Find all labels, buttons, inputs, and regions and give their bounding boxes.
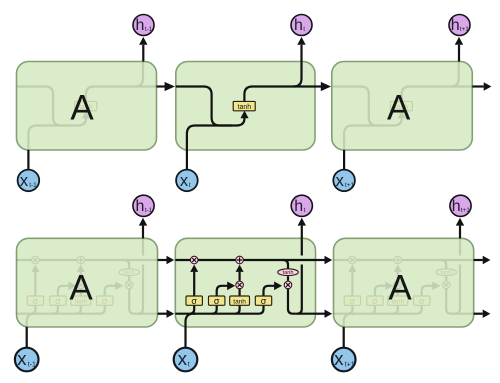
svg-text:A: A <box>69 269 93 308</box>
svg-text:A: A <box>388 269 412 308</box>
svg-text:t+1: t+1 <box>345 182 355 189</box>
wire C arrow B2 to B3 <box>316 256 333 264</box>
wire x input stub A3 <box>343 150 345 170</box>
svg-text:A: A <box>387 89 411 128</box>
svg-text:t-1: t-1 <box>145 26 153 33</box>
faded LSTM internals in box B1 <box>17 238 157 347</box>
wire x input stub A1 <box>27 150 29 170</box>
svg-text:t+1: t+1 <box>460 26 470 33</box>
wire C arrow B3 out <box>474 256 491 264</box>
wire h output arrow B2 <box>298 218 306 239</box>
node h(t+1) bottom <box>450 195 471 216</box>
svg-text:h: h <box>136 17 145 34</box>
svg-text:x: x <box>20 172 29 190</box>
module box A3 top-right <box>332 62 473 151</box>
module box B3 bottom-right <box>334 238 474 327</box>
svg-text:h: h <box>452 198 461 215</box>
faded LSTM internals in box B3 <box>334 238 474 347</box>
svg-text:x: x <box>17 348 27 369</box>
wire h arrow B2 to B3 <box>316 310 333 318</box>
wire h output arrow A2 <box>297 37 305 62</box>
svg-text:h: h <box>451 17 460 34</box>
wire h output arrow A1 <box>139 37 147 62</box>
wire x input stub A2 <box>186 150 188 170</box>
node x(t+1) top <box>333 170 355 192</box>
module box A2 top-middle <box>176 62 315 151</box>
wire x input stub B1 <box>26 327 28 348</box>
wire h output arrow A3 <box>455 37 463 62</box>
svg-text:h: h <box>136 198 145 215</box>
node x(t+1) bottom <box>332 348 356 372</box>
module box A1 top-left <box>17 62 157 151</box>
svg-text:t: t <box>188 362 190 369</box>
svg-text:t+1: t+1 <box>345 362 355 369</box>
svg-text:t-1: t-1 <box>145 207 153 214</box>
svg-text:x: x <box>336 172 345 190</box>
svg-text:h: h <box>294 17 303 34</box>
wire h arrow B3 out <box>474 310 491 318</box>
svg-text:t-1: t-1 <box>28 362 36 369</box>
svg-text:x: x <box>334 348 344 369</box>
wire arrow A3 out <box>472 82 491 90</box>
node x(t) top <box>176 170 198 192</box>
module box B2 bottom-middle <box>175 238 315 327</box>
wire arrow A1 to A2 <box>157 82 175 91</box>
svg-text:t: t <box>189 182 191 189</box>
svg-text:t-1: t-1 <box>29 182 37 189</box>
wire h arrow B1 to B2 <box>158 310 175 318</box>
faded RNN internals in box A1 <box>17 62 156 152</box>
wire h output arrow B3 <box>456 218 464 239</box>
faded RNN internals in box A3 <box>333 62 472 152</box>
wire C arrow B1 to B2 <box>158 256 175 264</box>
node x(t-1) bottom <box>15 348 39 372</box>
svg-text:x: x <box>180 172 189 190</box>
wire arrow A2 to A3 <box>315 82 331 91</box>
svg-text:A: A <box>70 89 94 128</box>
module box B1 bottom-left <box>17 238 158 327</box>
node h(t) bottom <box>291 195 312 216</box>
svg-text:t: t <box>303 26 305 33</box>
node h(t) top <box>291 15 312 36</box>
wire h output arrow B1 <box>139 218 147 239</box>
node x(t-1) top <box>18 170 40 192</box>
LSTM internals in box B2 <box>175 238 315 347</box>
wire x input stub B3 <box>343 327 345 348</box>
node h(t+1) top <box>449 15 470 36</box>
svg-text:t+1: t+1 <box>461 207 471 214</box>
svg-text:t: t <box>304 207 306 214</box>
svg-text:h: h <box>294 198 303 215</box>
node x(t) bottom <box>174 348 198 372</box>
svg-text:x: x <box>178 348 188 369</box>
node h(t-1) top <box>133 15 154 36</box>
RNN internals in box A2 <box>176 62 315 152</box>
node h(t-1) bottom <box>133 195 154 216</box>
